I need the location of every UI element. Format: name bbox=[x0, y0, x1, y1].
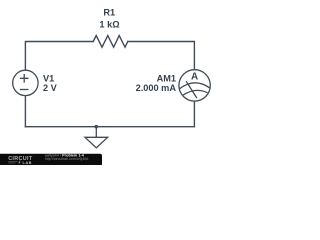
ground bbox=[85, 127, 108, 148]
watermark bar bbox=[0, 154, 102, 166]
ammeter AM1 bbox=[179, 70, 210, 101]
AM1 meter scale inner arc bbox=[183, 90, 207, 95]
svg-text:A: A bbox=[191, 71, 198, 82]
svg-text:V1: V1 bbox=[43, 73, 54, 83]
svg-text:LAB: LAB bbox=[23, 160, 32, 165]
wire from bottom-left corner up to V1 bottom bbox=[24, 96, 26, 127]
svg-text:AM1: AM1 bbox=[157, 73, 176, 83]
svg-text:2 V: 2 V bbox=[43, 83, 58, 93]
watermark logo rule lines bbox=[8, 162, 17, 163]
wire from R1 right lead right and down to AM1 top bbox=[128, 42, 195, 70]
V1 circle body bbox=[13, 70, 38, 95]
svg-text:2.000 mA: 2.000 mA bbox=[136, 83, 177, 93]
V1 plus mark bbox=[20, 74, 29, 83]
svg-text:R1: R1 bbox=[103, 8, 115, 18]
wire from V1 top up and right to R1 left lead bbox=[25, 42, 93, 71]
AM1 meter scale outer arc bbox=[179, 83, 209, 89]
wire from AM1 bottom down to bottom-right corner bbox=[193, 101, 195, 127]
AM1 meter needle bbox=[186, 81, 197, 98]
resistor R1 bbox=[93, 36, 128, 48]
watermark logo lightning bolt bbox=[18, 161, 20, 165]
svg-text:http://circuitlab.com/c/5j466: http://circuitlab.com/c/5j466 bbox=[45, 157, 89, 161]
AM1 circle body bbox=[179, 70, 210, 101]
V1 minus mark bbox=[20, 89, 29, 91]
ground stub wire bbox=[95, 127, 97, 138]
wire bottom horizontal bbox=[25, 126, 194, 128]
junction node dot on bottom wire bbox=[95, 125, 99, 129]
svg-text:1 kΩ: 1 kΩ bbox=[99, 20, 119, 30]
ground triangle bbox=[85, 137, 108, 148]
voltage source V1 bbox=[13, 70, 38, 95]
